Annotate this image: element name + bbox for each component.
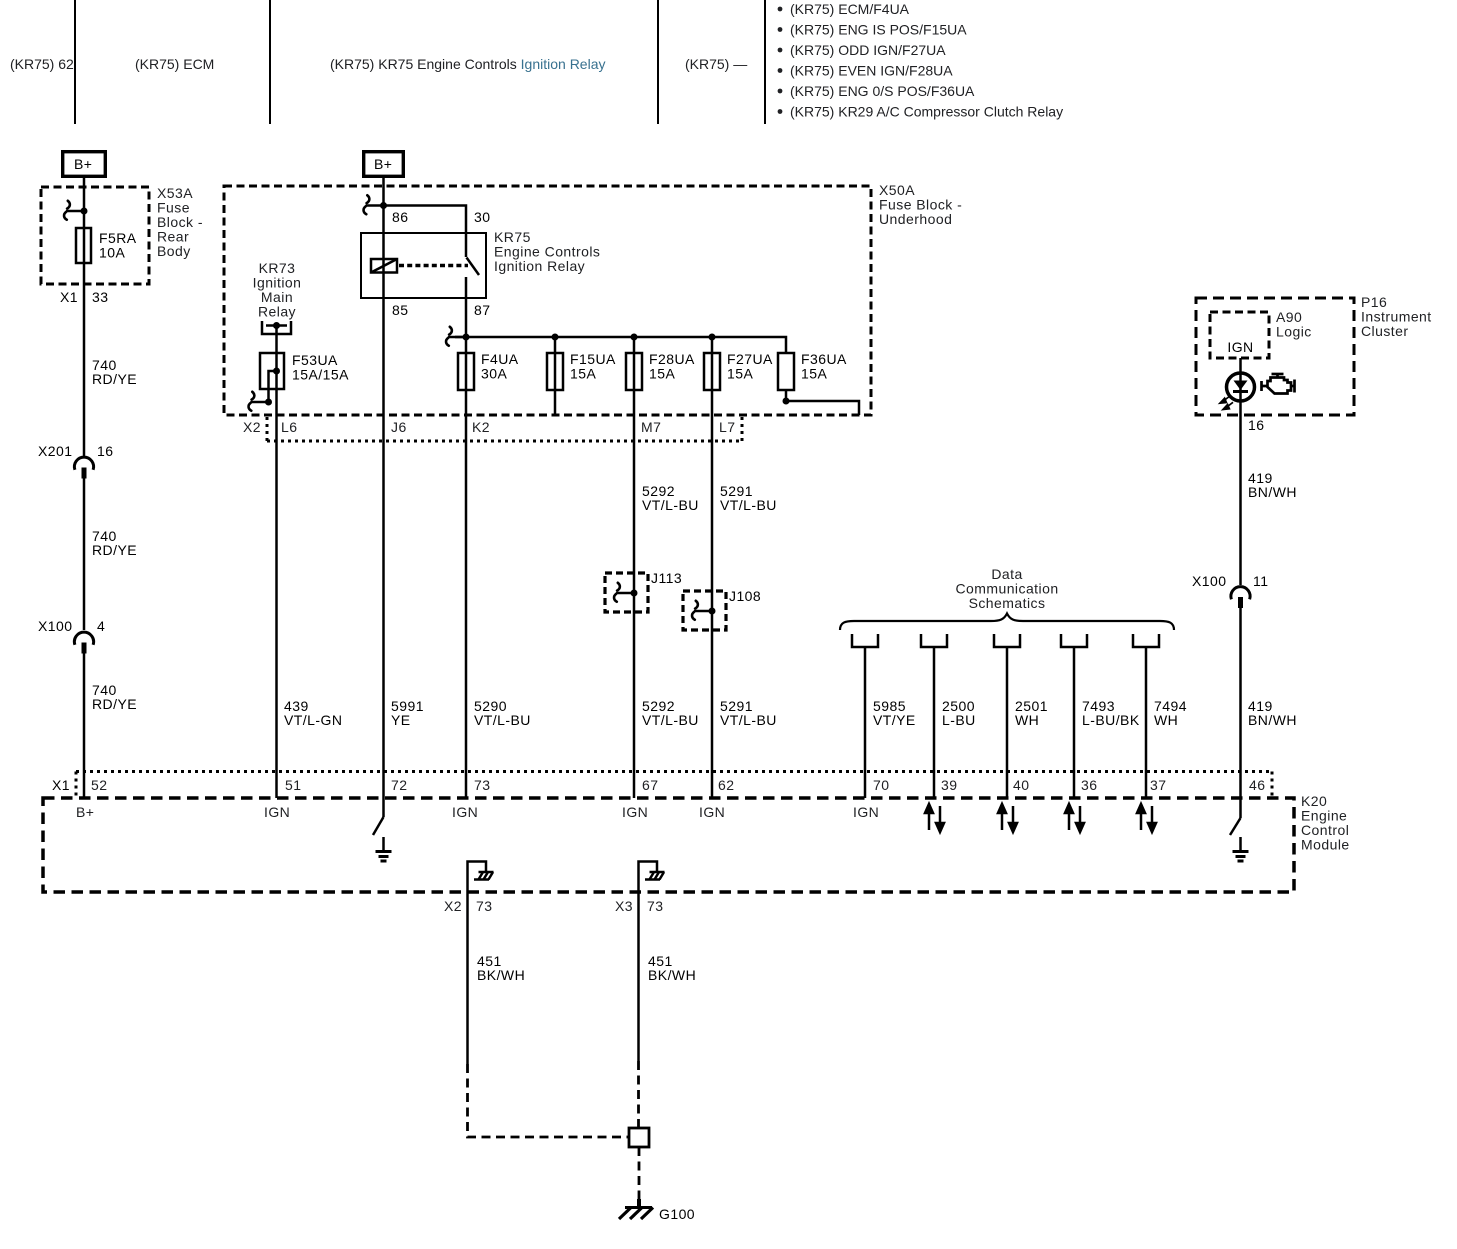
svg-text:46: 46 — [1249, 777, 1265, 793]
svg-text:IGN: IGN — [264, 804, 290, 820]
svg-text:37: 37 — [1150, 777, 1166, 793]
svg-text:BK/WH: BK/WH — [477, 967, 525, 983]
wire KR73 through fuse F53UA to X2-L6 — [275, 326, 278, 442]
dashed lead to G100 — [638, 1147, 641, 1199]
fuse block bus attachment clamp (87 bus) — [446, 327, 466, 346]
svg-text:15A: 15A — [801, 366, 827, 382]
wire A90 to indicator — [1239, 358, 1242, 415]
fuse block bus attachment clamp (F53UA) — [249, 392, 269, 411]
in-line connector X100 pin 4 — [38, 618, 105, 654]
svg-text:73: 73 — [476, 898, 492, 914]
svg-text:11: 11 — [1253, 573, 1268, 589]
svg-text:Module: Module — [1301, 837, 1350, 853]
in-line connector X201 pin 16 — [38, 443, 113, 479]
data terminal cup 1 — [852, 634, 878, 647]
X53A label — [157, 185, 203, 259]
svg-text:B+: B+ — [374, 156, 392, 172]
fuse F53UA 15A/15A — [260, 353, 284, 389]
wire F28UA column — [633, 337, 636, 441]
svg-text:B+: B+ — [74, 156, 92, 172]
svg-text:67: 67 — [642, 777, 658, 793]
junction dot at F5RA feed — [81, 208, 88, 215]
svg-text:62: 62 — [718, 777, 734, 793]
svg-text:X100: X100 — [38, 618, 73, 634]
fuse block bus attachment clamp (B+ feed) — [364, 195, 384, 214]
svg-text:G100: G100 — [659, 1206, 695, 1222]
wire to K20 pin 37 (7494 WH) — [1145, 647, 1148, 798]
svg-text:X100: X100 — [1192, 573, 1227, 589]
P16 label — [1361, 294, 1432, 339]
svg-text:73: 73 — [474, 777, 490, 793]
wire to K20 pin 70 (5985 VT/YE) — [864, 647, 867, 798]
fuse bus from relay 87 — [455, 337, 786, 353]
svg-text:L-BU/BK: L-BU/BK — [1082, 712, 1140, 728]
logic module A90 dashed box — [1210, 312, 1269, 358]
data terminal cup 5 — [1133, 634, 1159, 647]
svg-text:(KR75) 62: (KR75) 62 — [10, 56, 74, 72]
wire K2 to K20 pin 73 (5290 VT/L-BU) — [465, 441, 468, 798]
svg-text:15A: 15A — [727, 366, 753, 382]
svg-text:30A: 30A — [481, 366, 507, 382]
wire B+ into relay KR75 coil — [382, 178, 385, 441]
svg-text:X3: X3 — [615, 898, 633, 914]
svg-text:L7: L7 — [719, 419, 735, 435]
svg-text:BN/WH: BN/WH — [1248, 484, 1297, 500]
svg-text:X201: X201 — [38, 443, 73, 459]
serial data arrows pin 36 — [1065, 804, 1084, 832]
wire to relay pin 30 — [384, 206, 467, 234]
svg-text:(KR75) ENG 0/S POS/F36UA: (KR75) ENG 0/S POS/F36UA — [790, 83, 975, 99]
svg-text:L-BU: L-BU — [942, 712, 976, 728]
svg-text:72: 72 — [391, 777, 407, 793]
svg-text:IGN: IGN — [622, 804, 648, 820]
svg-text:16: 16 — [97, 443, 113, 459]
svg-text:X2: X2 — [444, 898, 462, 914]
wire K20 X3-73 ground lead (451 BK/WH) — [637, 892, 640, 1061]
indicator LED (MIL lamp) — [1227, 373, 1255, 401]
splice J113 dashed box — [605, 573, 648, 612]
Data Communication Schematics label — [955, 566, 1058, 611]
svg-text:VT/L-BU: VT/L-BU — [720, 497, 777, 513]
splice J108 clamp — [692, 601, 712, 620]
svg-text:15A: 15A — [570, 366, 596, 382]
junction dot inside F53UA — [273, 368, 280, 375]
svg-text:51: 51 — [285, 777, 301, 793]
svg-text:(KR75) KR29 A/C Compressor Clu: (KR75) KR29 A/C Compressor Clutch Relay — [790, 104, 1063, 120]
svg-text:Body: Body — [157, 243, 191, 259]
fuse F15UA 15A — [547, 353, 563, 390]
connector X2 cavity labels — [243, 419, 735, 435]
fuse block X50A dashed box — [224, 186, 871, 415]
internal case ground X2 — [468, 862, 494, 893]
svg-text:Logic: Logic — [1276, 324, 1312, 340]
connector X2 strip (fine dotted) — [267, 417, 742, 441]
wire relay 87 down to fuse bus — [465, 298, 468, 337]
svg-text:VT/L-BU: VT/L-BU — [474, 712, 531, 728]
svg-text:VT/L-BU: VT/L-BU — [642, 497, 699, 513]
svg-text:85: 85 — [392, 302, 408, 318]
serial data arrows pin 40 — [998, 804, 1017, 832]
LED light emission arrows — [1220, 396, 1233, 410]
svg-text:K2: K2 — [472, 419, 490, 435]
relay actuation dashed link — [399, 264, 468, 268]
svg-text:(KR75) EVEN IGN/F28UA: (KR75) EVEN IGN/F28UA — [790, 63, 953, 79]
svg-text:WH: WH — [1154, 712, 1178, 728]
data terminal cup 3 — [994, 634, 1020, 647]
data terminal cup 4 — [1061, 634, 1087, 647]
wire to K20 pin 36 (7493 L-BU/BK) — [1073, 647, 1076, 798]
header table column rule 4 — [764, 0, 766, 124]
internal case ground X3 — [639, 862, 665, 893]
wire L6 to K20 pin 51 (439 VT/L-GN) — [275, 441, 278, 798]
svg-text:(KR75) —: (KR75) — — [685, 56, 747, 72]
svg-text:73: 73 — [647, 898, 663, 914]
relay coil — [371, 259, 397, 273]
svg-text:40: 40 — [1013, 777, 1029, 793]
junction dot KR73 output — [273, 322, 280, 329]
svg-text:(KR75) ECM: (KR75) ECM — [135, 56, 214, 72]
svg-text:L6: L6 — [281, 419, 297, 435]
wire F27UA column — [711, 337, 714, 441]
svg-text:YE: YE — [391, 712, 411, 728]
junction dot relay 86/30 feed — [380, 202, 387, 209]
fuse F27UA 15A — [704, 353, 720, 390]
wire to K20 pin 40 (2501 WH) — [1006, 647, 1009, 798]
svg-text:15A: 15A — [649, 366, 675, 382]
svg-text:4: 4 — [97, 618, 105, 634]
wire K20 X2-73 ground lead (451 BK/WH) — [466, 892, 469, 1064]
KR75 label — [494, 229, 600, 274]
fuse F28UA 15A — [626, 353, 642, 390]
svg-text:30: 30 — [474, 209, 490, 225]
splice J108 dashed box — [683, 591, 726, 630]
X50A label — [879, 182, 962, 227]
junction dot F36UA output — [783, 398, 790, 405]
svg-text:IGN: IGN — [853, 804, 879, 820]
svg-text:(KR75) ODD IGN/F27UA: (KR75) ODD IGN/F27UA — [790, 42, 946, 58]
internal ground at pin 72 — [373, 798, 392, 861]
svg-text:BN/WH: BN/WH — [1248, 712, 1297, 728]
relay switch pin 87 stub — [465, 277, 468, 298]
header table column rule 3 — [657, 0, 659, 124]
fuse block bus attachment clamp (X53A) — [64, 201, 84, 220]
serial data arrows pin 39 — [925, 804, 944, 832]
svg-text:VT/L-GN: VT/L-GN — [284, 712, 342, 728]
in-line connector X100 pin 11 — [1192, 573, 1268, 608]
K20 pin number labels — [91, 777, 1265, 793]
wire M7 to K20 pin 67 (5292 VT/L-BU) — [633, 441, 636, 798]
svg-text:Cluster: Cluster — [1361, 323, 1409, 339]
wire to K20 pin 39 (2500 L-BU) — [933, 647, 936, 798]
wire X100 to K20 pin 46 — [1239, 608, 1242, 798]
svg-text:IGN: IGN — [699, 804, 725, 820]
battery feed B+ (second) — [364, 152, 404, 177]
K20 bottom connector labels X2-73 and X3-73 — [444, 898, 663, 914]
svg-text:WH: WH — [1015, 712, 1039, 728]
svg-text:16: 16 — [1248, 417, 1264, 433]
svg-text:87: 87 — [474, 302, 490, 318]
wire F4UA column (relay 87 to K2) — [465, 337, 468, 441]
bullet list — [778, 1, 1064, 120]
ground splice block — [629, 1128, 649, 1147]
svg-text:X1: X1 — [60, 289, 78, 305]
relay switch pin 30 stub — [465, 233, 468, 257]
internal ground at pin 46 — [1230, 798, 1249, 861]
svg-text:X1: X1 — [52, 777, 70, 793]
brace over data communication wires — [840, 614, 1174, 631]
K20 pin function labels — [76, 804, 879, 820]
wire X201 to X100 — [83, 478, 86, 630]
data terminal cup 2 — [921, 634, 947, 647]
svg-text:RD/YE: RD/YE — [92, 696, 137, 712]
wire P16 pin16 to X100 (419 BN/WH) — [1239, 415, 1242, 585]
svg-text:X2: X2 — [243, 419, 261, 435]
fuse F36UA 15A — [778, 353, 794, 390]
svg-text:Relay: Relay — [258, 304, 296, 320]
svg-text:10A: 10A — [99, 245, 125, 261]
svg-text:B+: B+ — [76, 804, 94, 820]
serial data arrows pin 37 — [1137, 804, 1156, 832]
wire B+ to fuse F5RA to X1-33 — [83, 178, 86, 456]
fuse F4UA 30A — [458, 353, 474, 390]
junction dot F53UA branch end — [265, 399, 272, 406]
svg-text:VT/L-BU: VT/L-BU — [720, 712, 777, 728]
svg-text:Ignition Relay: Ignition Relay — [494, 258, 585, 274]
bus junction dots — [463, 334, 470, 341]
splice J113 clamp — [614, 583, 634, 602]
K20 label — [1301, 793, 1350, 853]
svg-text:(KR75) ENG IS POS/F15UA: (KR75) ENG IS POS/F15UA — [790, 22, 967, 38]
A90 label — [1276, 309, 1312, 340]
svg-text:39: 39 — [941, 777, 957, 793]
svg-text:86: 86 — [392, 209, 408, 225]
dashed continuation X3 lead — [637, 1061, 640, 1128]
dashed continuation X2 lead — [468, 1064, 630, 1137]
svg-text:VT/L-BU: VT/L-BU — [642, 712, 699, 728]
K20 Engine Control Module dashed box — [43, 798, 1294, 892]
svg-text:Schematics: Schematics — [969, 595, 1046, 611]
svg-text:33: 33 — [92, 289, 108, 305]
svg-text:36: 36 — [1081, 777, 1097, 793]
svg-text:J108: J108 — [729, 588, 761, 604]
F53UA second-feed branch — [269, 371, 277, 402]
svg-text:J6: J6 — [391, 419, 407, 435]
wire J6 to K20 pin 72 (5991 YE) — [382, 441, 385, 798]
header table column rule 1 — [74, 0, 76, 124]
svg-text:RD/YE: RD/YE — [92, 371, 137, 387]
svg-text:M7: M7 — [641, 419, 661, 435]
svg-text:52: 52 — [91, 777, 107, 793]
instrument cluster P16 dashed box — [1196, 298, 1354, 415]
svg-text:IGN: IGN — [452, 804, 478, 820]
junction dot J113 — [631, 590, 638, 597]
relay KR75 box — [361, 233, 486, 298]
svg-text:15A/15A: 15A/15A — [292, 367, 349, 383]
svg-text:IGN: IGN — [1227, 339, 1253, 355]
svg-text:(KR75) ECM/F4UA: (KR75) ECM/F4UA — [790, 1, 910, 17]
fuse F5RA 10A — [76, 228, 91, 263]
wire F36UA output branch — [786, 390, 859, 415]
svg-text:VT/YE: VT/YE — [873, 712, 916, 728]
wire L7 to K20 pin 62 (5291 VT/L-BU) — [711, 441, 714, 798]
svg-text:RD/YE: RD/YE — [92, 542, 137, 558]
check engine pictogram — [1262, 374, 1295, 394]
wire X100 to K20 pin 52 — [83, 653, 86, 798]
wire F15UA column — [554, 337, 557, 415]
junction dot J108 — [709, 608, 716, 615]
battery feed B+ (left) — [63, 152, 106, 177]
relay switch blade — [467, 258, 480, 276]
KR73 relay contact terminal cup — [262, 321, 291, 334]
connector X1 strip (fine dotted) — [76, 772, 1272, 798]
svg-text:(KR75) KR75 Engine Controls Ig: (KR75) KR75 Engine Controls Ignition Rel… — [330, 56, 605, 72]
ground G100 — [619, 1199, 653, 1219]
svg-text:J113: J113 — [651, 570, 682, 586]
svg-text:BK/WH: BK/WH — [648, 967, 696, 983]
header table column rule 2 — [269, 0, 271, 124]
fuse block X53A dashed box — [41, 187, 149, 284]
svg-text:Underhood: Underhood — [879, 211, 952, 227]
svg-text:70: 70 — [873, 777, 889, 793]
relay KR73 Ignition Main Relay label — [253, 260, 302, 320]
